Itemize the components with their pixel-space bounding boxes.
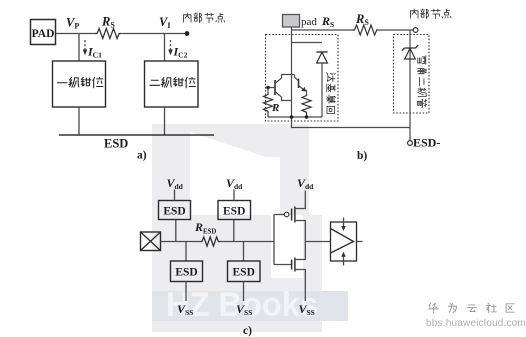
node dot VI — [185, 31, 190, 36]
svg-text:IC2: IC2 — [173, 45, 188, 60]
transistor Q2 base bar — [298, 79, 300, 89]
bottom bus inside clamp box — [268, 116, 322, 118]
wire junction2 up to ESD box2 — [233, 220, 235, 242]
wire box4 to VSS2 — [243, 282, 245, 302]
main wire left — [161, 241, 201, 243]
svg-text:ESD: ESD — [233, 267, 255, 279]
PMOS channel bar — [294, 207, 296, 223]
wire junction1b down to ESD box3 — [185, 242, 187, 262]
rotated label 雪崩二级管 — [418, 56, 427, 107]
dashed box second-stage clamp — [394, 35, 430, 114]
wire clamp1 to ESD bus — [78, 107, 80, 135]
clamp box 2 — [145, 61, 199, 107]
junction dot bus left — [290, 115, 294, 119]
wire Vdd2 to box2 — [233, 190, 235, 201]
NMOS gate bar — [291, 260, 293, 270]
transistor Q1 base lead — [268, 88, 275, 94]
transistor Q2 emitter — [299, 86, 307, 95]
svg-text:IC1: IC1 — [87, 45, 102, 60]
PMOS drain to output — [295, 221, 305, 242]
wire clamp2 to ESD bus — [164, 107, 166, 135]
rotated label 达基集回 — [326, 73, 335, 114]
buffer top arrow line — [343, 218, 345, 227]
wire to diode branch — [292, 42, 323, 44]
current arrow IC1 (dashed) — [84, 40, 86, 50]
Q2 emitter arrowhead — [301, 87, 305, 92]
inverter input vertical — [273, 215, 275, 265]
arrowhead IC2 — [168, 50, 173, 56]
buffer bottom arrow line — [343, 257, 345, 266]
svg-text:ESD: ESD — [223, 206, 245, 218]
pad square (b) — [283, 15, 300, 28]
transistor Q1 emitter — [275, 75, 295, 84]
wire resistor to internal node — [121, 33, 187, 35]
ESD box1 — [159, 201, 191, 220]
wire node VI down to clamp 2 — [164, 34, 166, 62]
diode D1 triangle — [317, 52, 328, 63]
svg-text:pad: pad — [301, 16, 317, 28]
resistor RS (a) — [95, 29, 121, 39]
zener triangle — [405, 48, 416, 59]
wire Vdd1 to box1 — [174, 190, 176, 201]
label 一级钳位 — [57, 77, 102, 87]
output wire to buffer — [305, 241, 330, 243]
NMOS gate lead — [274, 264, 292, 266]
label 二级钳位 — [150, 77, 195, 87]
PMOS bubble — [284, 212, 289, 217]
PMOS gate lead — [274, 214, 284, 216]
ESD box4 — [228, 261, 261, 282]
svg-text:ESD-: ESD- — [413, 136, 440, 150]
svg-text:VI: VI — [159, 15, 170, 30]
svg-text:a): a) — [137, 150, 147, 162]
wire PAD to resistor — [56, 33, 95, 35]
svg-text:ESD: ESD — [175, 267, 197, 279]
resistor R vertical — [264, 93, 273, 117]
PMOS gate bar — [291, 209, 293, 221]
buffer triangle — [331, 229, 354, 254]
svg-text:RS: RS — [321, 14, 334, 29]
wire pad to resistor (b) — [292, 29, 353, 31]
NMOS channel bar — [294, 258, 296, 272]
footer 华为云社区 (decorative) — [429, 303, 514, 313]
svg-text:VP: VP — [66, 16, 79, 31]
PAD box — [31, 20, 56, 45]
wire resistor to internal node (b) — [379, 29, 413, 31]
PMOS source to Vdd — [295, 191, 305, 209]
svg-text:RS: RS — [355, 12, 369, 27]
wire exit to ESD- rail — [292, 117, 411, 128]
terminal circle ESD- — [408, 141, 413, 146]
svg-text:PAD: PAD — [32, 28, 55, 40]
pad X-box — [141, 232, 161, 251]
ESD bus (a) — [59, 134, 214, 136]
wire junction1 up to ESD box1 — [175, 220, 177, 242]
arrowhead IC1 — [83, 50, 88, 56]
main wire right — [220, 241, 274, 243]
watermark background shapes (decorative) — [152, 124, 322, 332]
buffer box — [331, 222, 357, 261]
resistor R2 vertical — [302, 95, 311, 118]
junction dot bus right — [305, 115, 309, 119]
resistor RS (b) — [353, 25, 379, 35]
svg-text:R: R — [271, 102, 279, 114]
diode D1 cathode bar — [316, 51, 327, 53]
label 内部节点 (a) — [183, 13, 224, 23]
svg-text:c): c) — [243, 325, 252, 337]
ESD box2 — [218, 201, 251, 220]
dashed box first-stage clamp — [266, 35, 339, 122]
svg-text:ESD: ESD — [163, 206, 185, 218]
zener bar with wings — [402, 45, 418, 51]
NMOS source to VSS — [295, 270, 305, 302]
transistor Q1 collector — [275, 92, 292, 101]
svg-text:ESD: ESD — [104, 137, 128, 151]
svg-text:b): b) — [357, 150, 367, 162]
label 内部节点 (b) — [410, 9, 451, 19]
buffer output stub — [357, 241, 363, 243]
junction dot Q1 base — [266, 86, 270, 90]
svg-text:Vdd: Vdd — [226, 176, 243, 191]
clamp box 1 — [53, 61, 106, 107]
buffer bottom arrowhead — [341, 252, 346, 257]
ESD box3 — [171, 261, 203, 282]
diode D1 to bottom bus — [321, 63, 323, 117]
svg-text:RS: RS — [101, 15, 115, 30]
terminal circle internal node (b) — [413, 28, 418, 33]
wire zener branch vertical — [409, 30, 411, 141]
transistor Q1 base bar — [274, 80, 276, 95]
wire node VP down to clamp 1 — [78, 34, 80, 62]
buffer top arrowhead — [341, 226, 346, 231]
NMOS drain to output — [295, 242, 305, 260]
resistor RESD — [201, 237, 221, 246]
wire box3 to VSS1 — [185, 282, 187, 302]
svg-text:bbs.huaweicloud.com: bbs.huaweicloud.com — [426, 318, 526, 329]
current arrow IC2 (dashed) — [170, 40, 172, 50]
wire junction2b down to ESD box4 — [243, 242, 245, 262]
transistor Q2 collector lead — [295, 75, 299, 82]
wire pad vertical main — [291, 27, 293, 117]
